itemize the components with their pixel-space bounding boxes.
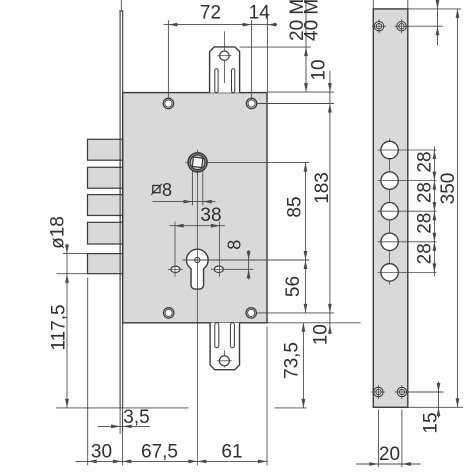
strike bolt hole 3 xyxy=(381,203,398,220)
svg-text:67,5: 67,5 xyxy=(141,442,178,463)
svg-text:20: 20 xyxy=(379,444,400,465)
deadbolt pin 5 xyxy=(88,254,123,274)
deadbolt pin 2 xyxy=(88,167,123,188)
bottom-right fixing hole xyxy=(246,308,256,318)
dims 28 x4 (bolt hole spacing) xyxy=(415,147,437,277)
case top edge extension xyxy=(267,91,334,93)
strike screw hole bottom-left xyxy=(371,385,385,399)
svg-text:72: 72 xyxy=(200,3,221,24)
faceplate lines over bolts xyxy=(119,139,121,274)
follower centre extension xyxy=(206,162,310,164)
svg-text:14: 14 xyxy=(249,3,271,24)
deadbolt pin 4 xyxy=(88,222,123,244)
strike plate xyxy=(373,9,408,407)
dim square-8 (follower square) xyxy=(151,180,215,204)
dim 20 MIN / 40 MAX (tab adjustment) xyxy=(287,0,323,92)
top sliding extension tab xyxy=(210,31,240,92)
svg-text:28: 28 xyxy=(415,213,436,234)
dim 117,5 (faceplate below bolt) xyxy=(49,304,189,407)
dim 3,5 (faceplate thickness) xyxy=(98,407,151,434)
svg-text:350: 350 xyxy=(438,173,459,205)
dim 38 (cylinder slots spacing) xyxy=(170,205,226,228)
svg-text:28: 28 xyxy=(415,243,436,264)
dim 183 (fixing holes distance) xyxy=(312,172,333,313)
bottom holes extension xyxy=(257,312,335,314)
svg-text:15: 15 xyxy=(421,412,442,433)
dim 8 (cylinder to slot offset) xyxy=(225,240,251,280)
strike screw hole bottom-right xyxy=(395,385,409,399)
dim diam 18 (bolt diameter) xyxy=(48,216,88,408)
top holes extension xyxy=(258,103,335,105)
top-left fixing hole xyxy=(163,98,173,108)
svg-text:28: 28 xyxy=(415,151,436,172)
svg-text:61: 61 xyxy=(221,442,242,463)
follower square extension lines xyxy=(191,171,193,206)
dim 14 (hole to case edge) xyxy=(249,3,277,93)
dim 56 (cylinder to bottom holes) xyxy=(283,260,307,313)
cylinder fixing slot left xyxy=(168,222,183,277)
strike bolt hole 4 xyxy=(381,233,398,250)
svg-text:30: 30 xyxy=(91,442,112,463)
svg-text:73,5: 73,5 xyxy=(282,342,303,379)
top-right fixing hole xyxy=(246,98,256,108)
faceplate (edge view, 3.5 thick) xyxy=(119,11,123,408)
dim 10 (top, holes to edge) xyxy=(309,59,332,334)
svg-text:8: 8 xyxy=(162,180,172,200)
strike bolt hole 2 xyxy=(381,172,398,189)
euro cylinder hole xyxy=(186,249,208,289)
dim 15 (top, cut off) xyxy=(409,0,443,45)
bottom dims 30 / 67,5 / 61 xyxy=(76,278,268,466)
dim 72 (hole spacing) xyxy=(164,3,278,100)
deadbolt pin 1 xyxy=(88,139,123,160)
svg-text:56: 56 xyxy=(283,276,304,297)
svg-text:10: 10 xyxy=(311,324,332,345)
svg-text:183: 183 xyxy=(312,172,333,204)
follower square hub xyxy=(185,150,207,175)
cylinder fixing slot right xyxy=(211,222,253,277)
dim 10 (bottom, holes to edge) xyxy=(311,324,332,345)
dim 73,5 (case to faceplate end) xyxy=(274,323,306,408)
svg-text:117,5: 117,5 xyxy=(49,304,70,350)
dim 15 (bottom holes to plate end) xyxy=(409,382,444,434)
svg-text:38: 38 xyxy=(200,205,221,226)
strike bolt hole 5 xyxy=(381,264,398,281)
tab top extension line xyxy=(240,46,311,48)
strike screw hole top-left xyxy=(372,19,386,33)
cylinder vertical axis line xyxy=(196,171,198,465)
svg-text:28: 28 xyxy=(415,182,436,203)
extension line above faceplate xyxy=(120,0,122,12)
svg-text:ø18: ø18 xyxy=(48,216,69,249)
svg-text:3,5: 3,5 xyxy=(123,407,149,428)
dim 20 (screw holes spacing) xyxy=(356,410,421,468)
strike bolt hole 1 xyxy=(381,141,398,158)
svg-text:10: 10 xyxy=(309,59,330,80)
svg-text:85: 85 xyxy=(285,196,306,217)
cylinder centre extension xyxy=(183,259,310,261)
case bottom edge extension xyxy=(267,322,360,324)
dim 350 (plate length) xyxy=(408,9,463,407)
bottom-left fixing hole xyxy=(164,308,174,318)
deadbolt pin 3 xyxy=(88,195,123,216)
bottom sliding extension tab xyxy=(210,323,239,370)
svg-text:8: 8 xyxy=(225,240,245,250)
strike plate bolt holes centreline xyxy=(389,139,391,285)
strike screw hole top-right xyxy=(395,19,409,33)
svg-text:40 MAX: 40 MAX xyxy=(302,0,323,41)
dim 85 (follower to cylinder) xyxy=(285,163,308,313)
lock case body xyxy=(123,93,267,323)
strike plate extension lines above xyxy=(372,0,374,10)
